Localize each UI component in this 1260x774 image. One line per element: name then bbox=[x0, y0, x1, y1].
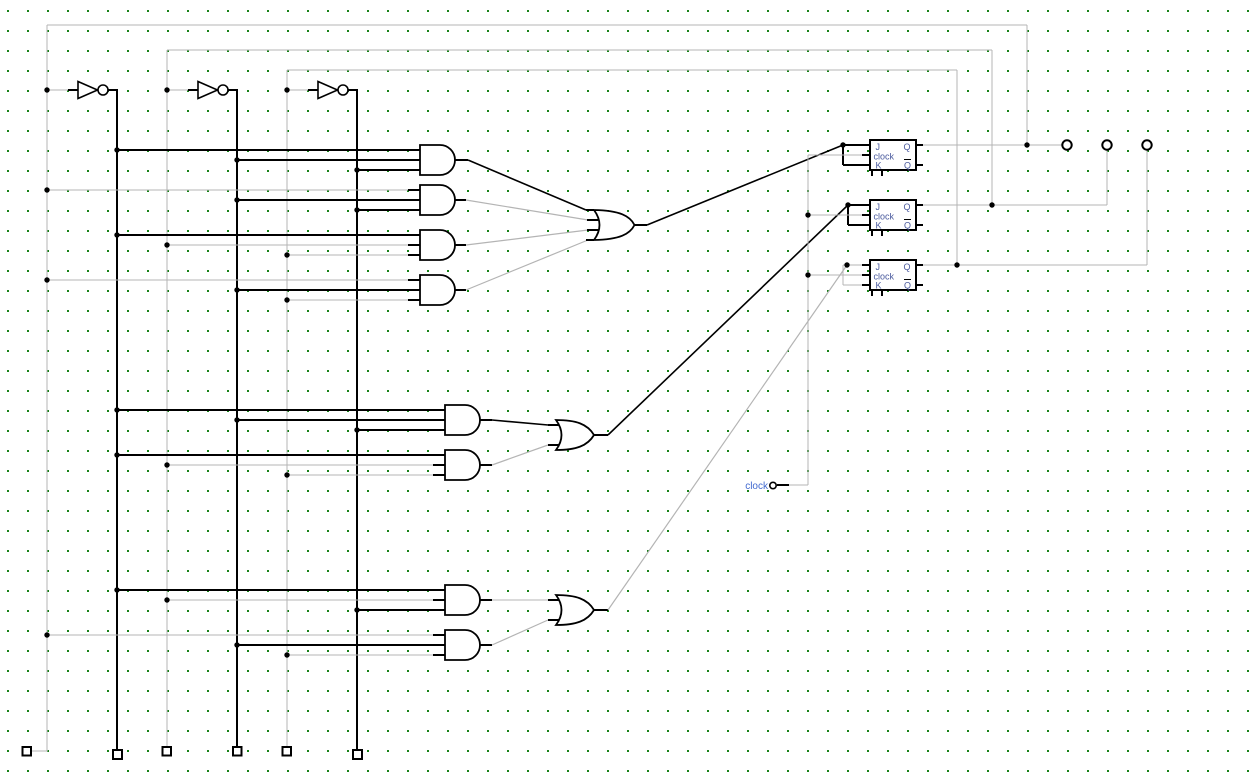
wire: FF2 Qbar stub bbox=[916, 224, 923, 226]
output pin Y1 bbox=[1062, 140, 1071, 149]
wire: column A vertical x=47 bbox=[31, 25, 48, 751]
junction nodes column B bbox=[114, 147, 119, 592]
AND gate A7 bbox=[445, 585, 480, 615]
wire: AND3 output to OR1 input3 bbox=[455, 230, 602, 245]
svg-text:J: J bbox=[876, 142, 881, 152]
svg-text:Q: Q bbox=[904, 281, 911, 291]
svg-text:J: J bbox=[876, 262, 881, 272]
NOT gate U1 bbox=[78, 82, 108, 99]
wire: column E vertical x=287 bbox=[286, 70, 288, 747]
wire: OR1 output diagonal to FF1 J bbox=[634, 145, 843, 225]
wire: feedback net Q2 horizontal y=50 bbox=[167, 49, 992, 51]
junction nodes Q feedback bbox=[954, 142, 1029, 267]
junction nodes column A bbox=[44, 87, 49, 637]
junction nodes column E bbox=[284, 87, 289, 657]
input pin X6 bbox=[353, 750, 362, 759]
wire: AND5 input rows bbox=[117, 410, 445, 430]
input pin X1 bbox=[23, 747, 32, 756]
wire: AND1 output to OR1 input1 bbox=[455, 160, 594, 210]
wire: FF2 J-K tie bbox=[848, 205, 870, 225]
wire: NOT2 input bbox=[167, 89, 198, 91]
svg-text:Q: Q bbox=[904, 221, 911, 231]
wire: AND8 output to OR3 input2 bbox=[480, 620, 562, 645]
input pin X2 bbox=[113, 750, 122, 759]
input pin X5 bbox=[283, 747, 292, 756]
wire: clock net bbox=[777, 155, 870, 485]
AND gate A8 bbox=[445, 630, 480, 660]
wire: FF3 Q output row bbox=[916, 150, 1147, 265]
svg-text:Q: Q bbox=[904, 161, 911, 171]
junction nodes column D bbox=[234, 157, 239, 647]
svg-text:J: J bbox=[876, 202, 881, 212]
svg-text:K: K bbox=[876, 221, 882, 231]
wire: AND3 input rows bbox=[117, 235, 420, 255]
wire: FF3 Qbar stub bbox=[916, 284, 923, 286]
output pin Y3 bbox=[1142, 140, 1151, 149]
wire: FF1 J-K tie bbox=[843, 145, 870, 165]
wire: OR3 output diagonal to FF3 J bbox=[594, 265, 847, 610]
svg-text:clock: clock bbox=[745, 481, 769, 492]
wire: column B vertical x=117 (NOT1 output) bbox=[108, 90, 117, 750]
svg-text:K: K bbox=[876, 161, 882, 171]
JK flip-flop FF2 bbox=[870, 200, 916, 236]
wire: column D vertical x=237 (NOT2 output) bbox=[228, 90, 237, 750]
NOT gate U2 bbox=[198, 82, 228, 99]
JK flip-flop FF3 bbox=[870, 260, 916, 296]
wire: AND5 output to OR2 input1 bbox=[480, 420, 562, 425]
wire: OR2 output diagonal to FF2 J bbox=[594, 205, 848, 435]
junction nodes FF J inputs bbox=[840, 142, 850, 267]
wire: FF3 J-K tie bbox=[843, 265, 870, 285]
clock input pin bbox=[745, 481, 776, 492]
AND gate A1 bbox=[420, 145, 455, 175]
wire: AND7 input rows bbox=[117, 590, 445, 610]
wire: AND8 input rows bbox=[47, 635, 445, 655]
wire: NOT1 input bbox=[47, 89, 78, 91]
junction nodes column F bbox=[354, 167, 359, 612]
wire: feedback net Q3 horizontal y=70 bbox=[287, 69, 957, 71]
OR gate O3 bbox=[556, 595, 594, 625]
wire: AND6 input rows bbox=[117, 455, 445, 475]
wire: FF2 Q output row bbox=[916, 150, 1107, 205]
OR gate O2 bbox=[556, 420, 594, 450]
input pin X4 bbox=[233, 747, 242, 756]
JK flip-flop FF1 bbox=[870, 140, 916, 176]
wire: AND7 output to OR3 input1 bbox=[480, 599, 562, 601]
AND gate A6 bbox=[445, 450, 480, 480]
wire: Q2 feedback vertical x=992 bbox=[991, 50, 993, 205]
wire: column C vertical x=167 bbox=[166, 50, 168, 747]
wire: NOT3 input bbox=[287, 89, 318, 91]
output pin Y2 bbox=[1102, 140, 1111, 149]
OR gate O1 bbox=[594, 210, 635, 240]
wire: AND1 input rows bbox=[117, 150, 420, 170]
NOT gate U3 bbox=[318, 82, 348, 99]
wire: AND2 output to OR1 input2 bbox=[455, 200, 602, 220]
svg-text:Q: Q bbox=[904, 202, 911, 212]
AND gate A4 bbox=[420, 275, 455, 305]
svg-text:Q: Q bbox=[904, 262, 911, 272]
junction nodes column C bbox=[164, 87, 169, 602]
svg-text:Q: Q bbox=[904, 142, 911, 152]
wire: column F vertical x=357 (NOT3 output) bbox=[348, 90, 357, 750]
AND gate A5 bbox=[445, 405, 480, 435]
AND gate A2 bbox=[420, 185, 455, 215]
junction nodes clock column bbox=[805, 212, 810, 277]
wire: FF1 Q output row bbox=[916, 144, 1062, 146]
wire: AND4 output to OR1 input4 bbox=[455, 240, 594, 290]
wire: FF1 Qbar stub bbox=[916, 164, 923, 166]
input pin X3 bbox=[163, 747, 172, 756]
wire: AND6 output to OR2 input2 bbox=[480, 445, 562, 465]
AND gate A3 bbox=[420, 230, 455, 260]
wire: AND2 input rows bbox=[47, 190, 420, 210]
wire: AND4 input rows bbox=[47, 280, 420, 300]
svg-text:K: K bbox=[876, 281, 882, 291]
wire: feedback net Q1 top horizontal y=25 bbox=[47, 24, 1027, 26]
wire: Q3 feedback vertical x=957 bbox=[956, 70, 958, 265]
wire: Q1 feedback vertical x=1027 bbox=[1026, 25, 1028, 145]
